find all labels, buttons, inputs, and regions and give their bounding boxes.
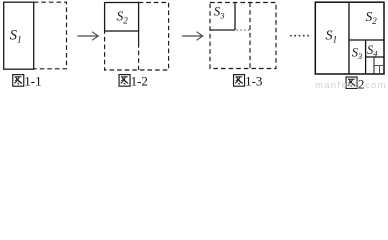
recursion v-line — [373, 57, 375, 74]
svg-text:1-2: 1-2 — [131, 74, 148, 89]
S3/S4 divider — [365, 40, 367, 74]
outer square — [315, 2, 384, 74]
dotted connector — [237, 29, 251, 31]
S4 bottom line — [366, 56, 384, 58]
ellipsis dots — [290, 35, 309, 37]
S2 bottom line — [349, 39, 384, 41]
svg-text:manfen5.com: manfen5.com — [315, 80, 387, 89]
square S2 (solid top-left box) — [105, 3, 139, 32]
arrow 2 — [182, 32, 203, 41]
recursion v-line 2 — [379, 66, 381, 75]
svg-text:1-1: 1-1 — [24, 74, 41, 89]
dashed remainder of unit square — [105, 3, 169, 71]
solid cut lines of S3 (right + bottom) — [210, 3, 235, 31]
caption 图1-2 — [119, 75, 130, 87]
dashed remainder of unit square (top, right, bottom) — [34, 2, 67, 69]
caption 图1-1 — [13, 75, 24, 87]
arrow 1 — [78, 32, 99, 41]
recursion h-line — [374, 65, 384, 67]
caption 图1-3 — [234, 75, 245, 87]
caption 图2 — [346, 77, 357, 89]
vertical midline — [348, 2, 350, 74]
svg-text:1-3: 1-3 — [245, 74, 262, 89]
square S1 (solid left-half rectangle) — [4, 2, 34, 69]
dashed vertical below S2 — [138, 43, 140, 70]
dashed vertical midline — [249, 3, 251, 69]
solid stub below S2 right edge — [138, 31, 140, 43]
dashed unit square — [210, 3, 276, 69]
